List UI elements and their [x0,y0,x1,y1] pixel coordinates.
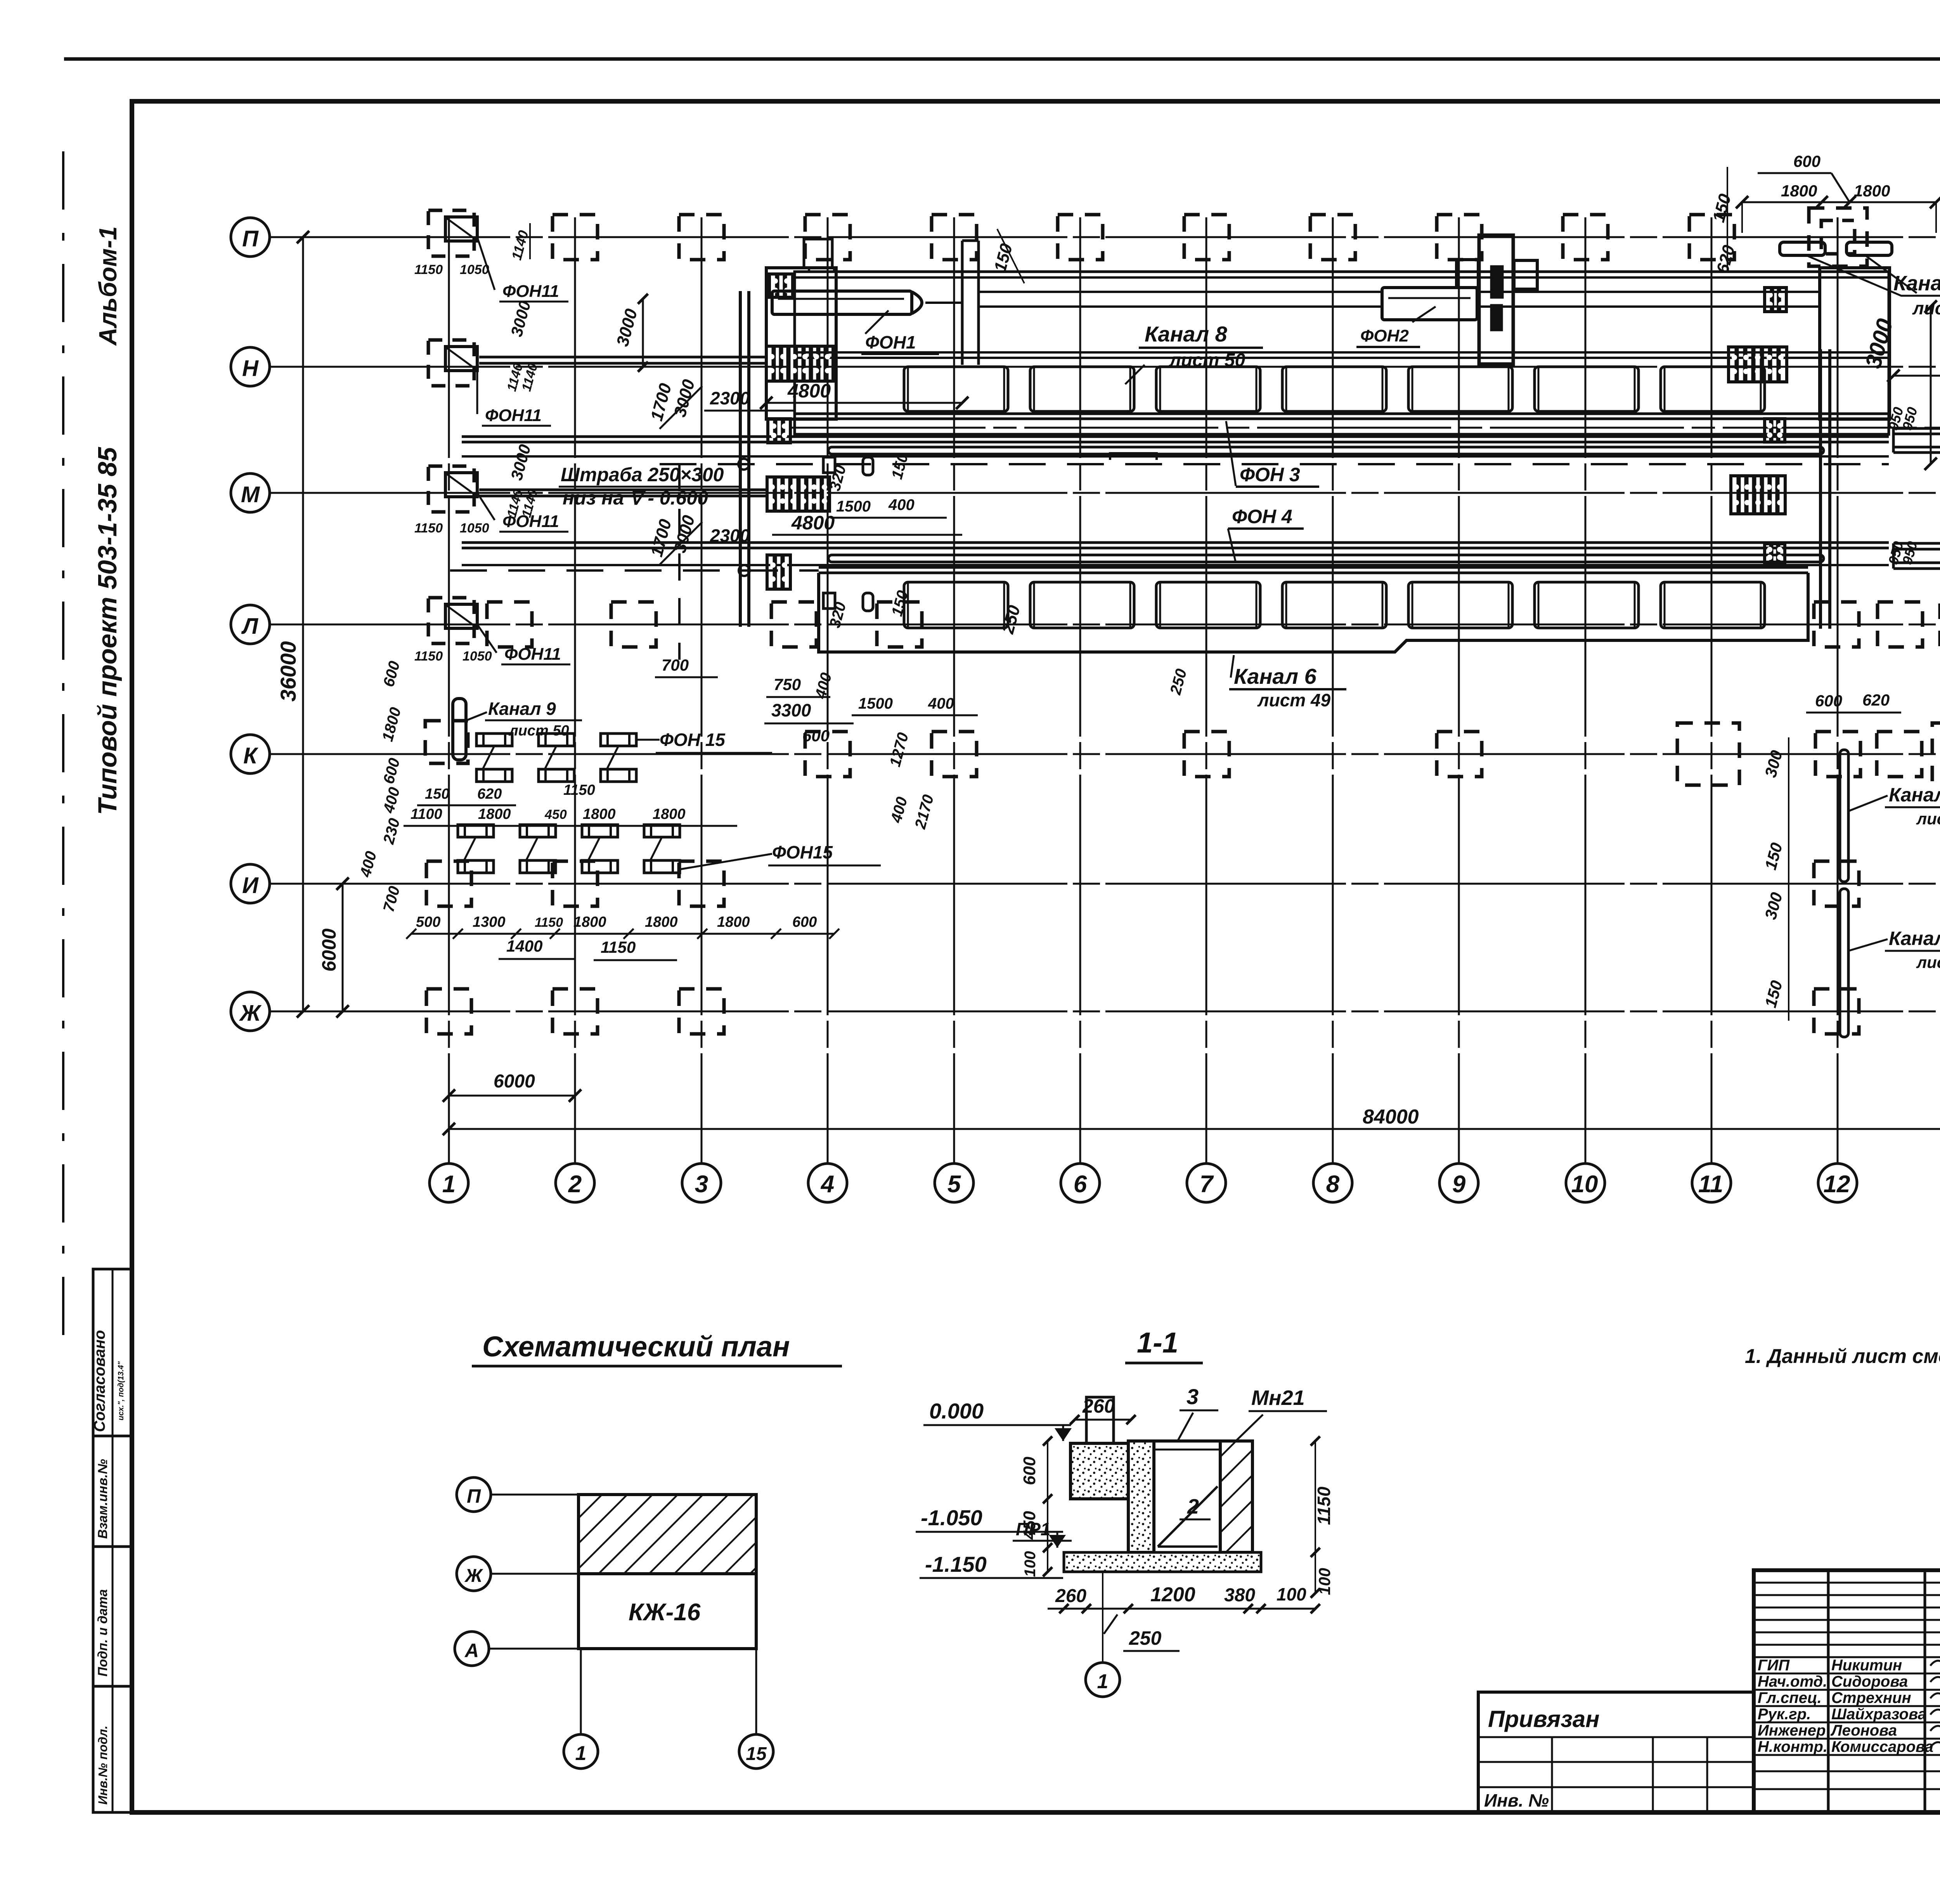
svg-text:Канал 7: Канал 7 [1889,784,1940,806]
svg-text:М: М [241,482,260,507]
channel end wall right vertical [1819,349,1822,629]
column square axis Л x=4897 [1878,602,1923,647]
left stamp block: Подп. и дата [93,1547,132,1686]
label ФОН2 [1412,307,1436,322]
small bracket under rails [1110,453,1157,460]
column square axis Л x=4733 [1814,602,1859,647]
svg-text:1800: 1800 [645,914,678,930]
svg-text:Никитин: Никитин [1831,1657,1902,1674]
column square axis П x=2459 [932,215,977,260]
rail ФОН4 lower line [462,564,1889,566]
svg-text:600: 600 [1020,1457,1039,1485]
leaders group A [483,746,494,769]
column square axis И x=4733 [1814,861,1859,906]
rails ФОН3 upper pair [462,435,1889,438]
column square axis И x=1808 [679,861,724,906]
svg-text:1: 1 [442,1171,456,1198]
column square axis Л x=1313 [487,602,532,647]
column square axis Л x=1633 [611,602,656,647]
svg-text:Канал 7: Канал 7 [1889,928,1940,949]
svg-text:А: А [464,1640,479,1661]
dashed channel line (штраба) lower [450,569,819,572]
column square axis К x=3110 [1184,732,1229,777]
svg-text:7: 7 [1200,1171,1214,1198]
thin line under band [792,427,1940,429]
svg-text:Рук.гр.: Рук.гр. [1758,1706,1811,1723]
svg-text:Привязан: Привязан [1488,1706,1599,1732]
column square axis И x=1157 [426,861,471,906]
comb hatch right row Н [1729,347,1787,382]
svg-text:1050: 1050 [460,521,489,536]
svg-text:15: 15 [746,1744,767,1764]
svg-text:8: 8 [1326,1171,1340,1198]
svg-text:Н.контр.: Н.контр. [1758,1738,1827,1755]
svg-text:84000: 84000 [1363,1106,1419,1128]
svg-text:600: 600 [1815,692,1842,710]
foundation block ФОН11 at axis1 y=1609 [428,598,474,643]
label Канал 7 lower [1848,939,1888,951]
svg-text:лист 50: лист 50 [1169,350,1245,371]
column square axis П x=4086 [1563,215,1608,260]
svg-text:1. Данный лист смотреть сов: 1. Данный лист смотреть совместно с лист… [1745,1345,1940,1368]
column square axis П x=1808 [679,215,724,260]
section: trough top flange [1154,1439,1220,1443]
svg-text:1150: 1150 [414,521,443,536]
svg-text:ФОН11: ФОН11 [485,406,542,425]
svg-text:Нач.отд.: Нач.отд. [1758,1673,1827,1690]
schematic axis А [455,1632,489,1666]
left dim chain [1047,1441,1048,1572]
svg-text:Инв. №: Инв. № [1484,1790,1549,1810]
svg-text:П: П [242,226,259,251]
right dim chain [1315,1441,1316,1593]
foundation block ФОН11 at axis1 y=945 [428,340,474,386]
label ФОН11 near axis1 y=1609 [477,624,497,653]
column square axis Ж x=1482 [553,989,598,1034]
svg-text:400: 400 [928,695,954,712]
svg-text:620: 620 [477,786,502,802]
column square axis И x=1482 [553,861,598,906]
svg-text:лист 49: лист 49 [1916,953,1940,971]
schematic hatched block КЖ-16 [579,1495,756,1574]
svg-text:250: 250 [1129,1627,1162,1649]
schematic axis П [457,1477,491,1512]
svg-text:750: 750 [774,675,801,694]
svg-text:150: 150 [425,786,449,802]
svg-text:ФОН 4: ФОН 4 [1232,506,1292,527]
svg-text:Штраба 250×300: Штраба 250×300 [561,464,724,486]
svg-text:1500: 1500 [858,695,893,712]
svg-text:ФОН 15: ФОН 15 [660,730,726,750]
bottom dim line [1048,1608,1315,1610]
rails ФОН4 upper pair [462,541,1889,544]
comb hatch left small mid [768,419,790,443]
dashed vertical near axis 3 [678,464,681,660]
right rails lower set [1893,542,1940,545]
svg-text:2: 2 [568,1171,582,1198]
dim 36000 vertical [302,237,304,1011]
svg-text:Гл.спец.: Гл.спец. [1758,1689,1822,1706]
ФОН2 tube [1382,288,1477,320]
label Канал 8 / лист 50 [1125,365,1145,384]
svg-text:1800: 1800 [1781,182,1817,200]
svg-text:ФОН11: ФОН11 [504,645,561,664]
svg-text:Канал 9: Канал 9 [488,699,556,719]
jagged column square П/12 [1809,208,1867,266]
svg-text:1800: 1800 [1854,182,1890,200]
vertical axis lines 1..15 [448,217,450,1164]
column square axis К x=2459 [932,732,977,777]
svg-text:1200: 1200 [1150,1583,1195,1606]
svg-text:3300: 3300 [771,700,811,720]
svg-text:380: 380 [1224,1585,1255,1606]
dim 15300 [1893,375,1940,377]
column square axis П x=3110 [1184,215,1229,260]
svg-text:1: 1 [1097,1670,1109,1693]
svg-text:исх.", под(13.4": исх.", под(13.4" [117,1361,125,1420]
left stamp block: Инв. № подл. [93,1686,132,1812]
label ФОН15 group A [636,739,660,741]
ФОН1 tube [772,291,912,314]
foundation block ФОН11 at axis1 y=611 [428,210,474,256]
section: trough left wall [1128,1441,1154,1552]
svg-text:1: 1 [575,1742,587,1765]
svg-text:100: 100 [1277,1584,1306,1604]
svg-text:6000: 6000 [494,1071,535,1092]
label ФОН11 near axis1 y=945 [476,367,478,414]
dim 3000 vertical right [1930,307,1932,464]
comb hatch left row Н [766,346,833,381]
svg-text:1150: 1150 [535,915,563,930]
svg-text:0.000: 0.000 [929,1399,984,1423]
comb hatch left small lower [767,555,790,589]
svg-text:лист 50: лист 50 [1912,298,1940,318]
svg-text:Ж: Ж [239,1001,262,1026]
ФОН15 bars group B row1 [458,825,494,837]
column collar below П/4 [804,239,832,268]
svg-text:600: 600 [1793,152,1820,170]
svg-text:ФОН11: ФОН11 [502,282,559,301]
channel 8 right end block [1820,268,1890,419]
svg-text:лист 49: лист 49 [1916,810,1940,828]
comb hatch left top small [769,274,793,297]
svg-text:4: 4 [820,1171,834,1198]
column square axis Л x=2046 [771,602,816,647]
big column square К/11 [1677,723,1739,785]
svg-text:100: 100 [1022,1551,1039,1577]
svg-text:1100: 1100 [411,806,442,822]
svg-text:Л: Л [241,614,258,639]
svg-text:Стрехнин: Стрехнин [1831,1689,1911,1706]
label Канал 9 / лист 50 top [1808,256,1940,296]
big column square К/13 [1932,723,1940,785]
svg-text:И: И [242,873,259,898]
svg-text:Инв.№ подл.: Инв.№ подл. [96,1725,110,1805]
svg-text:1150: 1150 [1314,1486,1334,1525]
channel 6 bottom boundary [819,573,1808,652]
svg-text:10: 10 [1571,1171,1598,1198]
rail ФОН4 thick bar [828,555,1824,562]
label ФОН11 near axis1 y=1270 [477,493,495,520]
column square axis П x=1482 [553,215,598,260]
axis circles left П..Ж [231,218,270,257]
svg-text:Согласовано: Согласовано [91,1330,108,1432]
section axis circle 1 [1102,1572,1103,1663]
svg-text:лист 49: лист 49 [1257,690,1331,710]
svg-text:1800: 1800 [573,914,606,930]
dim 84000 bottom [449,1128,1940,1130]
svg-text:4800: 4800 [787,380,831,402]
channel 6 panels [904,582,1008,628]
svg-text:1-1: 1-1 [1137,1327,1178,1359]
svg-text:400: 400 [888,496,915,513]
title block left table thin rows [1754,1582,1940,1584]
svg-text:Мн21: Мн21 [1251,1386,1305,1410]
title block left table columns [1827,1570,1830,1812]
svg-text:1800: 1800 [653,806,686,822]
dashed channel line (штраба) upper [660,463,1889,465]
svg-text:ФОН15: ФОН15 [772,842,833,862]
schematic axis Ж [457,1557,491,1591]
sheet top trim line [64,57,1940,61]
wire row М connector [479,489,767,491]
svg-text:3: 3 [695,1171,708,1198]
svg-text:1800: 1800 [717,914,750,930]
svg-text:1050: 1050 [460,262,489,277]
svg-text:К: К [243,743,258,768]
svg-text:450: 450 [1020,1511,1039,1540]
Канал 7 upper segment [1840,750,1848,882]
svg-text:450: 450 [544,807,567,822]
svg-text:Ж: Ж [464,1566,483,1586]
leaders group B [464,837,476,860]
foundation block ФОН11 at axis1 y=1270 [428,466,474,512]
L-duct from ФОН1 to П/5 [961,241,964,365]
svg-text:-1.150: -1.150 [925,1552,987,1576]
svg-text:1800: 1800 [478,806,511,822]
svg-text:11: 11 [1698,1171,1723,1198]
svg-text:Схематический план: Схематический план [482,1330,790,1363]
label Канал 9 / лист 50 left [468,712,487,720]
svg-text:Подп. и дата: Подп. и дата [95,1589,110,1677]
comb hatch right small lower [1765,544,1785,563]
svg-text:600: 600 [792,914,817,930]
column square axis П x=3435 [1310,215,1355,260]
svg-text:1500: 1500 [836,498,871,515]
comb hatch left row М [767,477,830,511]
svg-text:620: 620 [1862,691,1890,709]
wire row Н connector [479,356,767,359]
column square К/12 [1815,732,1860,777]
column square axis Ж x=4733 [1814,989,1859,1034]
Привязан table [1478,1692,1754,1812]
канал 9 top elements [1780,242,1825,255]
svg-text:Канал 6: Канал 6 [1234,664,1317,688]
axis circles bottom 1..15 [430,1164,468,1202]
svg-text:Альбом-1: Альбом-1 [94,226,122,346]
svg-text:1050: 1050 [462,649,492,664]
svg-text:Леонова: Леонова [1830,1722,1897,1739]
svg-text:Типовой проект 503-1-35 85: Типовой проект 503-1-35 85 [93,447,122,815]
column square axis К x=2133 [805,732,850,777]
svg-text:Н: Н [242,356,259,381]
svg-text:1800: 1800 [583,806,616,822]
svg-text:2: 2 [1187,1495,1199,1518]
schematic axis 15 [755,1649,757,1734]
column square axis К x=4895 [1877,732,1922,777]
column square axis П x=2784 [1058,215,1103,260]
ФОН15 bars group A row2 [476,769,512,782]
svg-text:1150: 1150 [563,782,595,798]
svg-text:12: 12 [1824,1171,1850,1198]
column square axis Ж x=1808 [679,989,724,1034]
label ФОН4 [1228,529,1236,563]
vertical shaft at x3850 [1479,235,1513,364]
comb hatch right top small [1765,288,1786,312]
svg-text:Взам.инв.№: Взам.инв.№ [95,1459,110,1539]
horizontal axis lines П..Ж [270,236,1940,238]
svg-text:Канал 9: Канал 9 [1893,272,1940,295]
schematic axis 1 [580,1649,582,1734]
label ФОН15 group B [680,854,772,869]
label ФОН3 [1226,421,1236,486]
channel 8 panels [904,367,1008,411]
column square axis П x=4412 [1689,215,1734,260]
section: left concrete column (speckled) [1070,1443,1128,1499]
title block left table label rows [1754,1656,1940,1658]
svg-text:низ на ∇ - 0.600: низ на ∇ - 0.600 [563,487,708,509]
svg-text:260: 260 [1082,1395,1115,1417]
svg-text:2300: 2300 [710,388,750,408]
ФОН15 bars group A row1 [476,734,512,746]
svg-text:4800: 4800 [791,512,835,534]
small solid rails marks [823,457,835,473]
svg-text:Инженер: Инженер [1758,1722,1826,1739]
channel end wall left vertical [739,291,742,627]
svg-text:6000: 6000 [318,928,340,971]
svg-text:ФОН 3: ФОН 3 [1240,464,1300,486]
channel 6 top lines [819,566,1808,569]
svg-text:1150: 1150 [414,649,443,664]
svg-text:500: 500 [416,914,440,930]
channel 8 outer boundary [795,272,1889,434]
left stamp block: Согласовано [93,1269,132,1436]
rail ФОН3 lower line [462,455,1889,458]
column square axis Ж x=1157 [426,989,471,1034]
svg-text:ФОН2: ФОН2 [1360,326,1409,345]
svg-text:600: 600 [802,727,830,745]
svg-text:-1.050: -1.050 [921,1505,982,1530]
section: trough diagonal strut [1158,1486,1218,1547]
label Канал 7 upper [1848,796,1888,811]
comb hatch right row М [1731,476,1785,514]
label ФОН1 [865,310,889,334]
Канал 9 vertical element left [453,699,466,760]
svg-text:2300: 2300 [710,525,750,546]
svg-text:1150: 1150 [601,938,636,956]
svg-text:6: 6 [1074,1171,1087,1198]
Канал 7 lower segment [1840,889,1848,1037]
column square axis Л x=2318 [877,602,922,647]
big dashed square К/1 [425,721,468,763]
right rails upper set [1893,427,1940,430]
svg-text:ГИП: ГИП [1758,1657,1790,1674]
svg-text:КЖ-16: КЖ-16 [629,1599,701,1626]
svg-text:ФОН1: ФОН1 [865,332,916,352]
label ФОН11 near axis1 y=611 [477,237,495,290]
svg-text:П: П [467,1485,481,1507]
svg-text:1150: 1150 [414,262,443,277]
svg-text:Комиссарова: Комиссарова [1831,1738,1933,1755]
dim 6000 bottom left (1-2) [449,1095,575,1097]
ФОН15 bars group B row2 [458,860,494,873]
column square axis П x=2133 [805,215,850,260]
svg-text:700: 700 [662,656,689,674]
left margin dash-dot trim line [62,151,64,1358]
section: bottom slab [1064,1552,1261,1572]
rail ФОН3 thick bar [828,447,1824,454]
label Канал 6 / лист 49 [1231,655,1234,678]
svg-text:Сидорова: Сидорова [1831,1673,1908,1690]
section: trough right wall hatched [1220,1441,1252,1552]
svg-text:1400: 1400 [506,937,542,955]
dim 6000 vertical (И-Ж) [342,884,344,1011]
channel 8 left end block [766,268,836,419]
comb hatch right small mid [1765,419,1785,442]
svg-text:5: 5 [947,1171,961,1198]
svg-text:1300: 1300 [473,914,506,930]
left stamp block: Взам. инв. № [93,1436,132,1547]
svg-text:36000: 36000 [276,641,300,702]
column square axis П x=3761 [1437,215,1482,260]
title block outer [1754,1570,1940,1812]
column square axis К x=3761 [1437,732,1482,777]
svg-text:Канал 8: Канал 8 [1145,322,1228,346]
svg-text:9: 9 [1452,1171,1466,1198]
svg-text:260: 260 [1055,1586,1086,1606]
svg-text:3: 3 [1187,1384,1199,1409]
svg-text:Шайхразова: Шайхразова [1831,1706,1926,1723]
